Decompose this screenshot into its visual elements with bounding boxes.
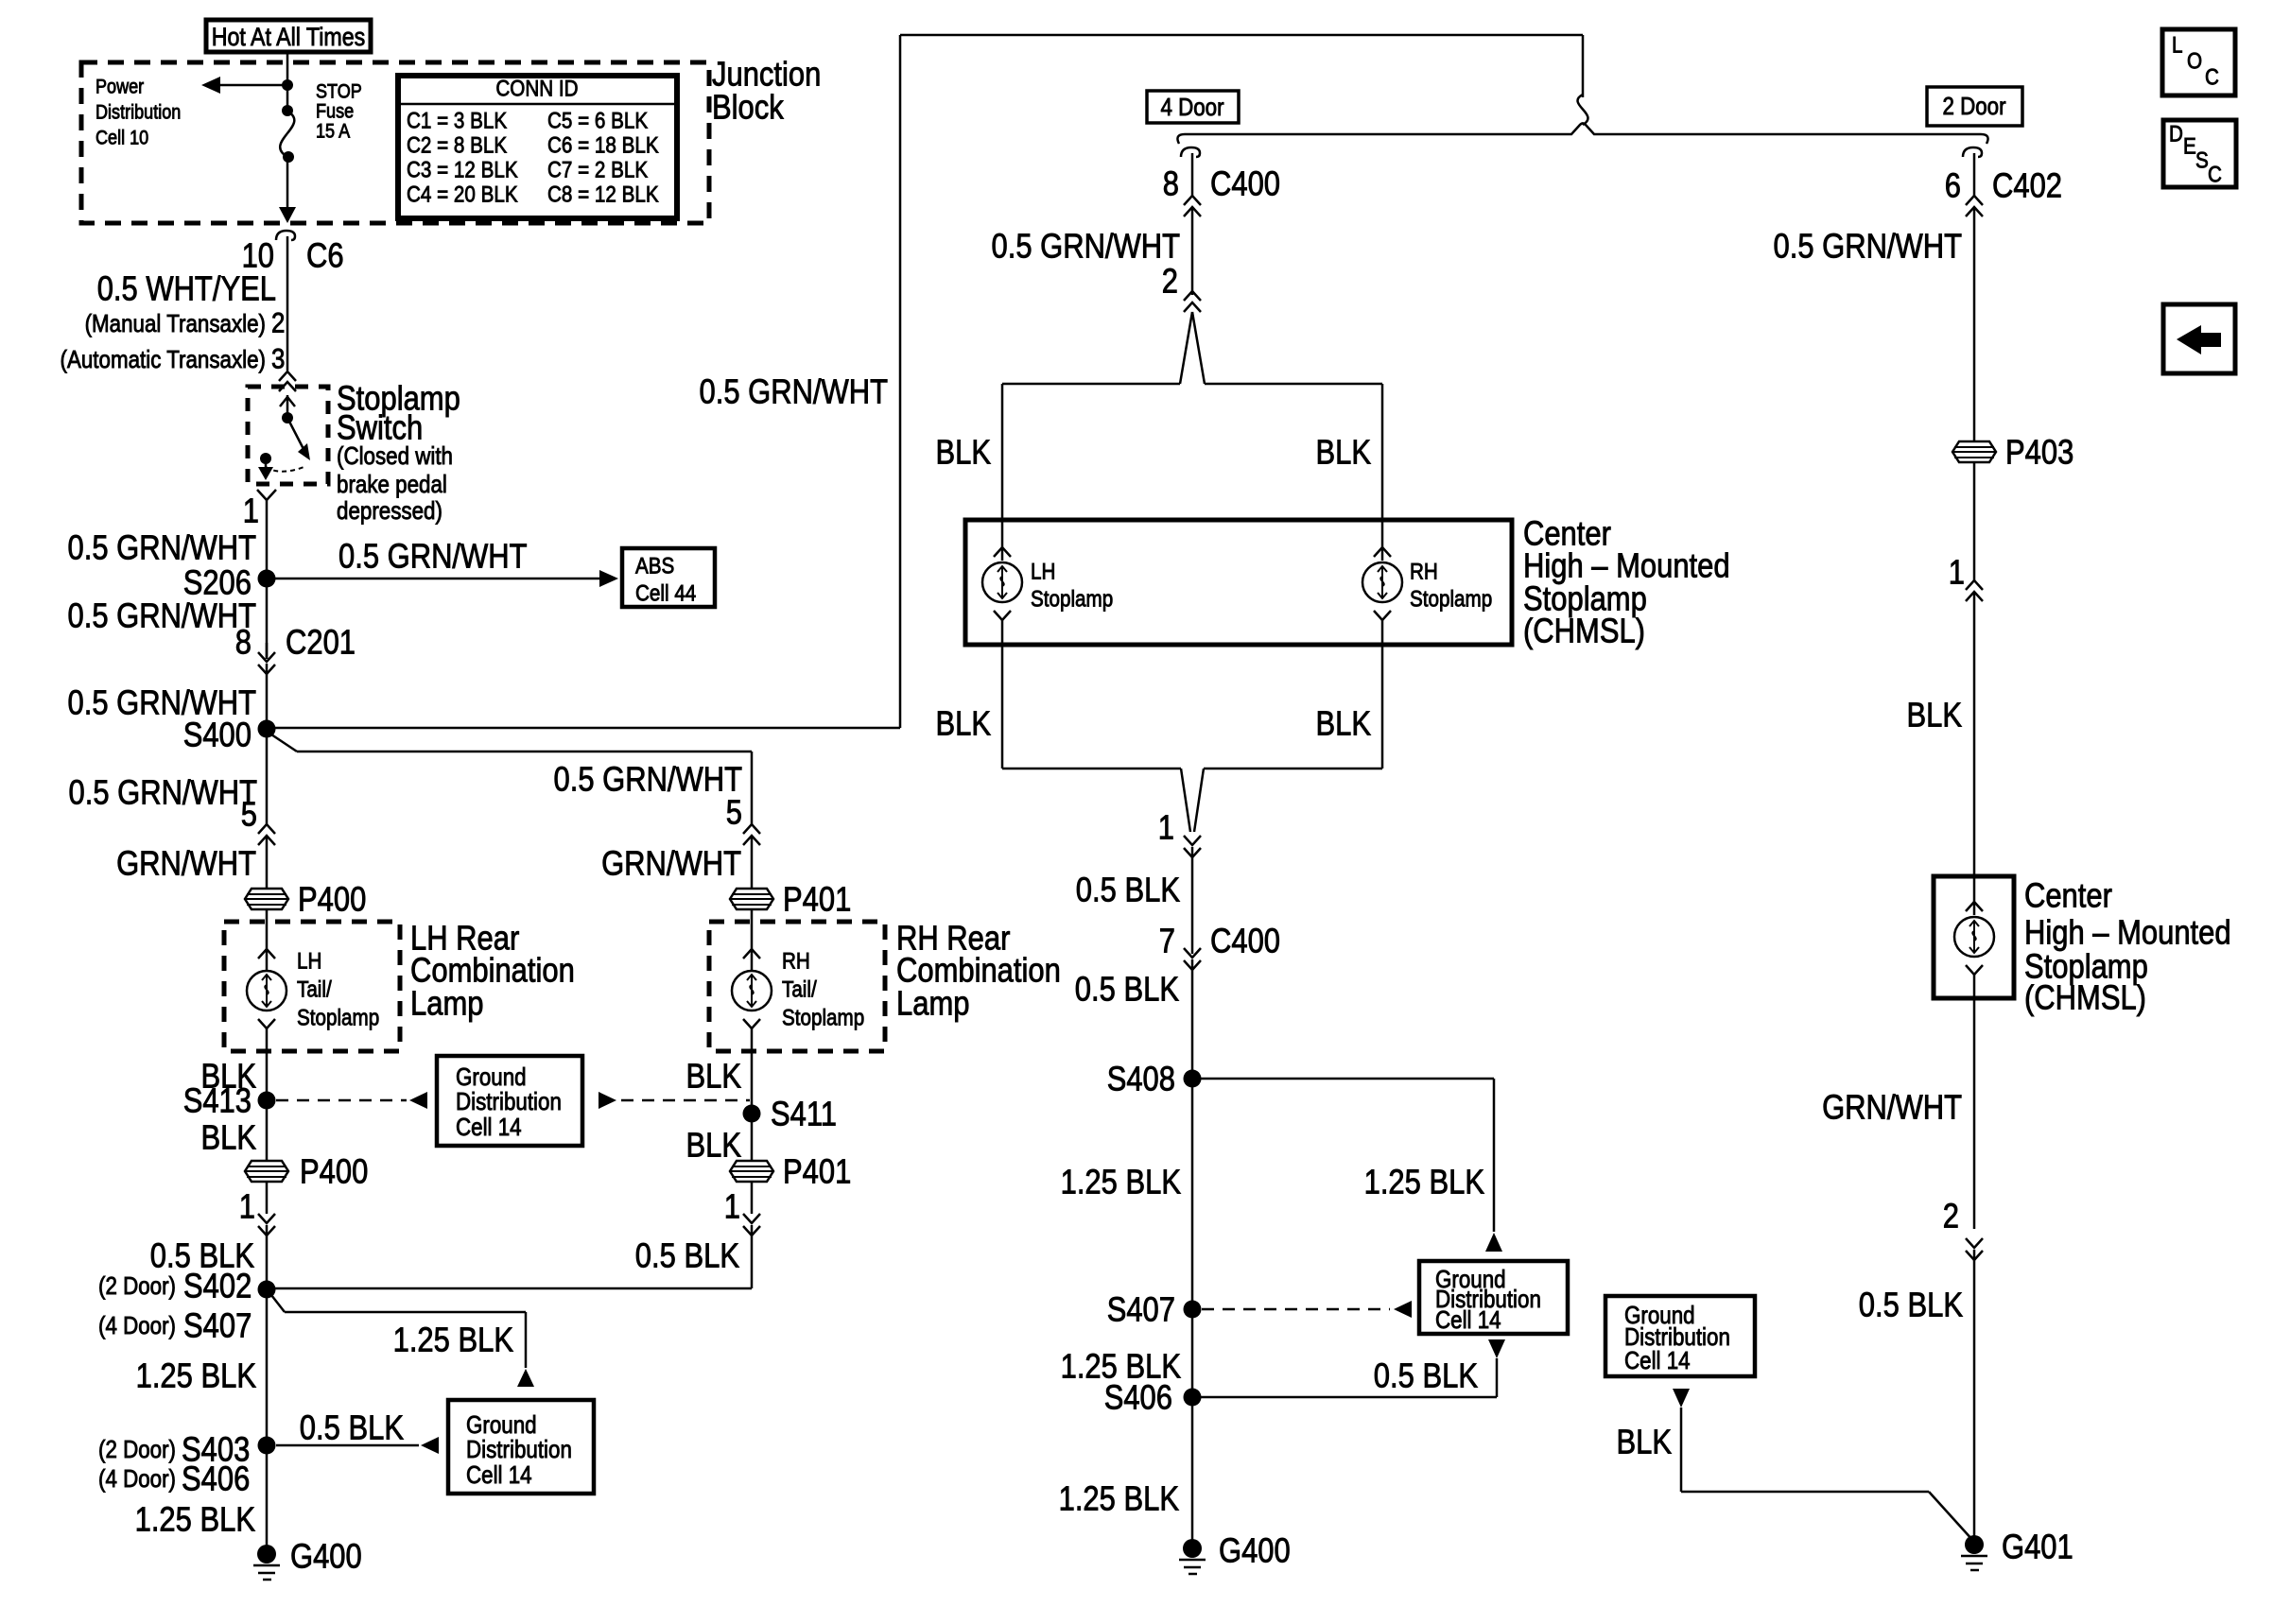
svg-text:0.5 BLK: 0.5 BLK [1075, 970, 1179, 1009]
wire S400 to top loop [267, 35, 900, 728]
stoplamp switch internals [258, 395, 310, 480]
CHMSL right box [1934, 876, 2014, 998]
wires from CHMSL box down to bus [1002, 645, 1382, 832]
dashed ground line from S407 [1202, 1301, 1412, 1318]
wire S402 branch to ground box [271, 1295, 534, 1387]
svg-text:C2 = 8 BLK: C2 = 8 BLK [407, 133, 507, 159]
svg-text:S: S [2195, 148, 2209, 174]
svg-text:C4 = 20 BLK: C4 = 20 BLK [407, 182, 518, 208]
svg-text:Stoplamp: Stoplamp [782, 1006, 864, 1031]
svg-text:0.5 BLK: 0.5 BLK [300, 1408, 404, 1447]
svg-text:1.25 BLK: 1.25 BLK [135, 1500, 255, 1539]
connector pin 1 below P401 [724, 1182, 760, 1235]
svg-text:BLK: BLK [1316, 433, 1372, 472]
svg-text:(4 Door): (4 Door) [98, 1311, 176, 1339]
Power Distribution / Junction Block dashed box [81, 62, 709, 223]
svg-text:High – Mounted: High – Mounted [2024, 913, 2231, 952]
wire S406 to G400 [1191, 1309, 1194, 1545]
LH stoplamp bulb [982, 520, 1022, 645]
wire CHMSL right down [1973, 998, 1976, 1229]
svg-text:1: 1 [1949, 553, 1965, 592]
svg-text:(Manual Transaxle): (Manual Transaxle) [85, 309, 266, 337]
splice S413 [183, 1081, 276, 1120]
Ground Distribution Cell 14 box (bottom right) [1605, 1296, 1755, 1376]
wire LH lamp to S413 [266, 1051, 269, 1100]
Ground Distribution Cell 14 box (middle) [1419, 1261, 1568, 1334]
connector pin 2 (right) [1943, 1197, 1983, 1261]
svg-text:D: D [2169, 122, 2183, 147]
svg-text:C400: C400 [1210, 164, 1280, 203]
svg-text:Fuse: Fuse [316, 101, 354, 123]
wire C400 down [1191, 207, 1194, 295]
wire S206 to C201 [266, 579, 269, 659]
svg-text:(CHMSL): (CHMSL) [2024, 978, 2146, 1017]
svg-text:LH: LH [1031, 560, 1055, 585]
wire into LH lamp [266, 909, 269, 971]
LH Rear Combination Lamp label [410, 919, 575, 1023]
ground G400 (middle) [1179, 1531, 1291, 1575]
wire to P400 [266, 836, 269, 890]
svg-text:Tail/: Tail/ [782, 977, 817, 1003]
svg-text:0.5 BLK: 0.5 BLK [635, 1236, 739, 1275]
Ground Distribution Cell 14 box (lower left) [448, 1400, 594, 1494]
back arrow box [2163, 304, 2235, 373]
svg-text:15 A: 15 A [316, 121, 350, 143]
option brace 4 Door / 2 Door [1177, 124, 1987, 145]
connector 5 (RH) [726, 793, 760, 846]
wire into RH lamp [751, 909, 754, 971]
STOP Fuse 15 A label [316, 81, 362, 143]
svg-text:L: L [2172, 33, 2183, 59]
svg-text:1: 1 [724, 1187, 740, 1226]
splice S407 [1107, 1290, 1202, 1329]
wire C6 to stoplamp switch [286, 236, 289, 371]
svg-text:E: E [2183, 134, 2196, 160]
svg-text:GRN/WHT: GRN/WHT [601, 844, 741, 883]
pass-through P400 lower [245, 1152, 368, 1191]
svg-text:Cell 14: Cell 14 [466, 1460, 532, 1489]
RH Tail/ Stoplamp label [782, 949, 864, 1031]
ground G401 [1961, 1528, 2073, 1571]
(Automatic Transaxle) 3 [61, 344, 286, 375]
svg-text:depressed): depressed) [337, 496, 442, 525]
svg-text:0.5 BLK: 0.5 BLK [1374, 1356, 1478, 1395]
svg-text:(2 Door): (2 Door) [98, 1435, 176, 1463]
pass-through P401 lower [730, 1152, 851, 1191]
fuse STOP 15A [280, 105, 294, 163]
connector pin 1 below bus [1158, 808, 1201, 858]
svg-text:1.25 BLK: 1.25 BLK [1061, 1163, 1181, 1201]
svg-text:GRN/WHT: GRN/WHT [116, 844, 256, 883]
LOC box [2162, 29, 2235, 95]
CONN ID table [398, 76, 677, 218]
svg-text:1.25 BLK: 1.25 BLK [1364, 1163, 1484, 1201]
splice S408 [1107, 1060, 1202, 1098]
svg-text:C7 = 2 BLK: C7 = 2 BLK [547, 158, 648, 183]
connector 7 C400 [1159, 922, 1280, 971]
svg-text:S400: S400 [183, 716, 252, 754]
connector 5 (LH) [241, 729, 275, 845]
svg-text:(CHMSL): (CHMSL) [1523, 612, 1645, 650]
svg-text:1: 1 [1158, 808, 1174, 847]
svg-text:Cell 10: Cell 10 [95, 128, 148, 149]
Hot At All Times box [206, 20, 371, 52]
svg-text:1: 1 [239, 1187, 255, 1226]
wire S413 to P400 lower [266, 1100, 269, 1161]
svg-text:8: 8 [1163, 164, 1179, 203]
wire from fuse to connector C6 with arrow [279, 157, 296, 223]
wire funnel to CHMSL wires [1002, 312, 1382, 520]
wire C400 to S408 [1191, 959, 1194, 1079]
splice S411 [743, 1095, 838, 1133]
splice S402 / S407 [98, 1267, 276, 1345]
svg-text:STOP: STOP [316, 81, 362, 103]
svg-text:2 Door: 2 Door [1942, 92, 2005, 120]
4 Door box [1147, 91, 1239, 123]
svg-text:(Automatic Transaxle): (Automatic Transaxle) [61, 345, 267, 373]
RH tail/stoplamp bulb [732, 949, 772, 1051]
svg-text:C8 = 12 BLK: C8 = 12 BLK [547, 182, 659, 208]
RH Stoplamp label [1410, 560, 1492, 613]
wire S408 to S407 [1191, 1079, 1194, 1309]
Center High-Mounted Stoplamp (CHMSL) label right [2024, 876, 2231, 1017]
svg-text:Stoplamp: Stoplamp [1031, 587, 1113, 613]
svg-text:P400: P400 [300, 1152, 368, 1191]
svg-text:P403: P403 [2005, 433, 2073, 472]
svg-text:0.5 GRN/WHT: 0.5 GRN/WHT [68, 528, 257, 567]
svg-text:Cell 14: Cell 14 [456, 1113, 522, 1141]
svg-text:0.5 GRN/WHT: 0.5 GRN/WHT [1774, 227, 1963, 266]
svg-text:Block: Block [712, 88, 785, 127]
svg-text:S411: S411 [771, 1095, 837, 1133]
pass-through P401 [730, 880, 851, 919]
splice S406 [1104, 1378, 1202, 1417]
wire to S402 [266, 1225, 269, 1289]
svg-text:C5 = 6 BLK: C5 = 6 BLK [547, 109, 648, 134]
RH Rear Combination Lamp dashed box [709, 922, 885, 1051]
svg-text:Lamp: Lamp [410, 984, 484, 1023]
svg-text:Cell 14: Cell 14 [1624, 1346, 1691, 1374]
svg-text:BLK: BLK [936, 704, 992, 743]
svg-text:1.25 BLK: 1.25 BLK [136, 1356, 256, 1395]
LH Stoplamp label [1031, 560, 1113, 613]
wire S411 to P401 lower [751, 1114, 754, 1161]
wire S403 to G400 [266, 1445, 269, 1550]
svg-text:1.25 BLK: 1.25 BLK [1059, 1479, 1179, 1518]
svg-text:BLK: BLK [686, 1126, 742, 1165]
svg-text:G401: G401 [2002, 1528, 2073, 1566]
wire S206 to ABS [267, 570, 618, 587]
top bus wire [900, 35, 1583, 97]
connector pin 1 below P400 [239, 1182, 275, 1235]
wire to C400 lower [1191, 847, 1194, 954]
svg-text:GRN/WHT: GRN/WHT [1822, 1088, 1962, 1127]
connector pin 2 [1162, 262, 1201, 313]
wire to G401 [1973, 1250, 1976, 1541]
svg-text:1: 1 [243, 492, 259, 530]
splice S403 / S406 [98, 1430, 276, 1498]
LH Tail/ Stoplamp label [297, 949, 379, 1031]
svg-text:Center: Center [2024, 876, 2112, 915]
svg-text:5: 5 [241, 795, 257, 834]
CHMSL bulb (right) [1954, 876, 1994, 998]
svg-text:0.5 GRN/WHT: 0.5 GRN/WHT [68, 596, 257, 635]
svg-text:brake pedal: brake pedal [337, 470, 447, 498]
svg-text:S406: S406 [182, 1460, 250, 1498]
wire break squiggle [1578, 95, 1588, 125]
wire to P401 [751, 836, 754, 890]
svg-text:0.5 GRN/WHT: 0.5 GRN/WHT [992, 227, 1181, 266]
Center High-Mounted Stoplamp (CHMSL) label [1523, 514, 1730, 650]
wire RH lamp to S411 [751, 1051, 754, 1114]
LH tail/stoplamp bulb [247, 949, 286, 1051]
wire switch to S206 [266, 500, 269, 579]
svg-text:BLK: BLK [1617, 1423, 1673, 1461]
connector pin 1 (right) [1949, 553, 1983, 602]
DESC box [2163, 120, 2236, 188]
svg-text:Distribution: Distribution [456, 1087, 562, 1115]
dashed ground line from S413 [276, 1092, 427, 1109]
ground G400 (left) [253, 1537, 362, 1581]
2 Door box [1927, 87, 2022, 126]
connector 8 C400 [1163, 147, 1280, 216]
svg-text:P401: P401 [783, 1152, 851, 1191]
svg-text:C201: C201 [286, 623, 356, 662]
svg-text:2: 2 [1943, 1197, 1959, 1235]
svg-text:3: 3 [271, 344, 285, 375]
LH Rear Combination Lamp dashed box [224, 922, 400, 1051]
wire P403 down [1973, 462, 1976, 580]
svg-text:0.5 BLK: 0.5 BLK [1859, 1286, 1963, 1324]
svg-text:G400: G400 [290, 1537, 362, 1576]
svg-text:O: O [2187, 49, 2202, 75]
svg-text:Hot At All Times: Hot At All Times [212, 23, 366, 51]
wire S403 to ground box arrow [276, 1437, 439, 1454]
svg-text:1.25 BLK: 1.25 BLK [393, 1321, 513, 1359]
svg-text:7: 7 [1159, 922, 1175, 960]
svg-text:S407: S407 [183, 1306, 252, 1345]
wire down to S402 bus [751, 1225, 754, 1288]
svg-text:Power: Power [95, 77, 144, 98]
svg-text:BLK: BLK [936, 433, 992, 472]
svg-text:Stoplamp: Stoplamp [297, 1006, 379, 1031]
svg-text:S407: S407 [1107, 1290, 1175, 1329]
ABS Cell 44 box [622, 548, 715, 607]
svg-text:(4 Door): (4 Door) [98, 1464, 176, 1493]
wire S402 to S403 [266, 1289, 269, 1445]
svg-text:Lamp: Lamp [896, 984, 970, 1023]
arrow below middle ground box [1192, 1339, 1505, 1397]
svg-text:CONN ID: CONN ID [495, 77, 578, 102]
svg-text:Cell 44: Cell 44 [635, 581, 696, 607]
svg-text:BLK: BLK [686, 1057, 742, 1096]
RH Rear Combination Lamp label [896, 919, 1061, 1023]
splice S400 [183, 716, 276, 754]
Stoplamp Switch dashed box [248, 387, 328, 484]
svg-text:2: 2 [271, 308, 285, 339]
svg-text:5: 5 [726, 793, 742, 832]
Junction Block label [712, 55, 821, 127]
svg-text:Cell 14: Cell 14 [1435, 1305, 1501, 1334]
svg-text:4 Door: 4 Door [1160, 93, 1223, 121]
connector 10 C6 [242, 231, 344, 275]
svg-text:C: C [2205, 65, 2219, 91]
svg-text:G400: G400 [1219, 1531, 1291, 1570]
svg-text:0.5 GRN/WHT: 0.5 GRN/WHT [554, 760, 743, 799]
svg-text:C3 = 12 BLK: C3 = 12 BLK [407, 158, 518, 183]
svg-text:Tail/: Tail/ [297, 977, 332, 1003]
svg-text:6: 6 [1945, 166, 1961, 205]
svg-text:C6: C6 [306, 236, 344, 275]
svg-text:ABS: ABS [635, 554, 674, 579]
wire S400 branch to RH column [271, 734, 752, 752]
svg-text:Stoplamp: Stoplamp [1410, 587, 1492, 613]
RH stoplamp bulb [1362, 520, 1402, 645]
wire C402 to P403 [1973, 207, 1976, 441]
Stoplamp Switch label [337, 379, 460, 526]
svg-text:S408: S408 [1107, 1060, 1175, 1098]
svg-text:BLK: BLK [201, 1118, 257, 1157]
svg-text:0.5 WHT/YEL: 0.5 WHT/YEL [97, 269, 276, 308]
Ground Distribution Cell 14 box (left) [437, 1056, 582, 1146]
svg-text:0.5 GRN/WHT: 0.5 GRN/WHT [700, 372, 889, 411]
svg-text:0.5 BLK: 0.5 BLK [1076, 871, 1180, 909]
svg-text:RH: RH [782, 949, 810, 975]
wire to CHMSL right [1973, 592, 1976, 876]
svg-text:8: 8 [235, 623, 252, 662]
wire from Hot box into junction block [286, 52, 289, 111]
svg-text:S413: S413 [183, 1081, 252, 1120]
svg-text:0.5 GRN/WHT: 0.5 GRN/WHT [338, 537, 528, 576]
svg-text:RH: RH [1410, 560, 1438, 585]
svg-text:C402: C402 [1992, 166, 2062, 205]
pass-through P400 [245, 880, 366, 919]
svg-text:S406: S406 [1104, 1378, 1172, 1417]
svg-text:C1 = 3 BLK: C1 = 3 BLK [407, 109, 507, 134]
wire down from S400 branch [751, 752, 754, 824]
svg-text:C: C [2208, 163, 2222, 188]
connector 8 C201 [235, 623, 356, 675]
Power Distribution Cell 10 label [95, 77, 181, 149]
svg-text:Distribution: Distribution [95, 102, 181, 124]
splice S206 [183, 563, 276, 602]
connector below switch pin 1 [243, 490, 276, 530]
svg-text:(Closed with: (Closed with [337, 441, 453, 470]
CHMSL center box [965, 520, 1512, 645]
svg-text:C6 = 18 BLK: C6 = 18 BLK [547, 133, 659, 159]
arrow to power distribution [201, 77, 293, 94]
svg-text:BLK: BLK [1907, 696, 1963, 734]
svg-text:C400: C400 [1210, 922, 1280, 960]
arrow below bottom right ground box [1673, 1389, 1973, 1541]
pass-through P403 [1952, 433, 2073, 472]
svg-text:S402: S402 [183, 1267, 252, 1305]
wire C201 to S400 [266, 664, 269, 729]
svg-text:P400: P400 [298, 880, 366, 919]
dashed ground line to S411 [599, 1092, 750, 1109]
svg-text:0.5 GRN/WHT: 0.5 GRN/WHT [69, 773, 258, 812]
svg-text:2: 2 [1162, 262, 1178, 301]
connector 6 C402 [1945, 147, 2062, 216]
wire S408 to ground box arrow [1192, 1079, 1502, 1252]
svg-text:BLK: BLK [1316, 704, 1372, 743]
svg-text:Distribution: Distribution [466, 1435, 572, 1463]
svg-text:LH: LH [297, 949, 321, 975]
svg-text:P401: P401 [783, 880, 851, 919]
wire S402 to RH column [267, 1287, 752, 1290]
(Manual Transaxle) 2 [85, 308, 286, 339]
connector chevrons above switch [279, 371, 296, 391]
svg-text:(2 Door): (2 Door) [98, 1271, 176, 1300]
